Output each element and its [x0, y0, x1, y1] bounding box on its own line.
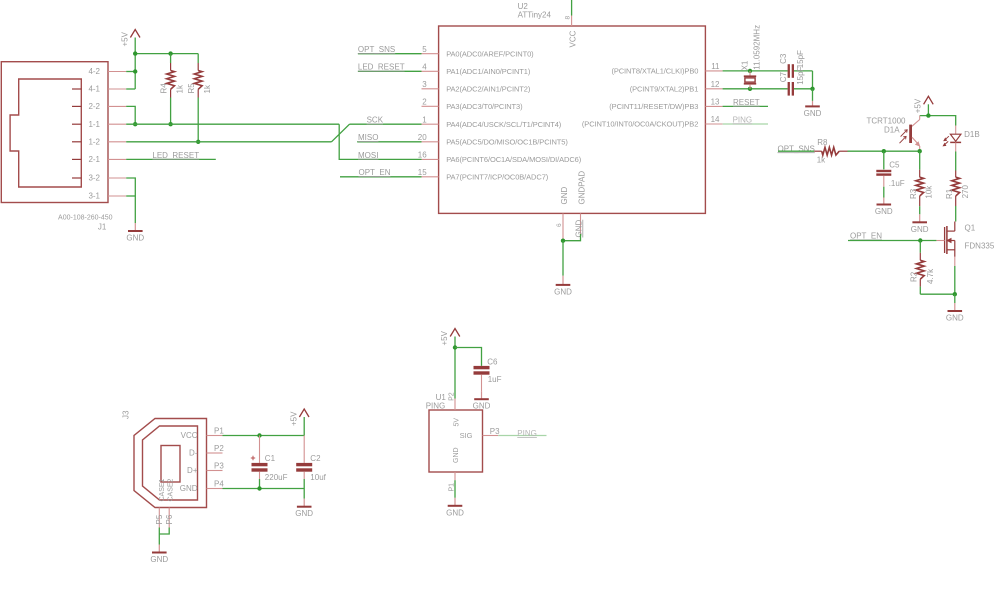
J1 pin stubs [108, 72, 126, 197]
crystal X1 [744, 71, 756, 89]
resistor R4 [167, 54, 175, 125]
U2 pin 4 PA1 [422, 62, 531, 76]
svg-text:(PCINT9/XTAL2)PB1: (PCINT9/XTAL2)PB1 [630, 85, 699, 94]
transistor Q1 FDN335 (N-MOSFET) [936, 222, 954, 267]
svg-text:OPT_SNS: OPT_SNS [358, 45, 395, 54]
svg-text:1k: 1k [203, 84, 212, 93]
net label SCK [367, 116, 384, 125]
svg-text:J1: J1 [98, 222, 107, 231]
svg-text:PA7(PCINT7/ICP/OC0B/ADC7): PA7(PCINT7/ICP/OC0B/ADC7) [446, 173, 549, 182]
svg-text:PA0(ADC0/AREF/PCINT0): PA0(ADC0/AREF/PCINT0) [446, 49, 534, 58]
svg-text:SCK: SCK [367, 116, 384, 125]
svg-text:6: 6 [556, 223, 563, 227]
wire XTAL1 net (pin 11) [723, 70, 788, 72]
net label MOSI [358, 151, 378, 160]
net label LED_RESET (J1) [152, 151, 199, 160]
ground GND (C2) [295, 499, 313, 519]
junction X1 top [748, 69, 752, 73]
svg-text:3: 3 [422, 80, 427, 89]
svg-text:2-2: 2-2 [88, 102, 100, 111]
wire net LED_RESET stub (IC) [358, 70, 422, 72]
svg-text:4: 4 [422, 62, 427, 71]
svg-text:GND: GND [946, 314, 964, 323]
U1 pin P3 SIG [460, 427, 501, 440]
svg-text:+5V: +5V [440, 330, 449, 345]
wire caps to ground [812, 89, 814, 101]
svg-text:Q1: Q1 [965, 223, 976, 232]
wire J1 3-2/3-1 to ground [126, 178, 135, 223]
svg-text:P4: P4 [214, 480, 224, 489]
svg-text:15pF: 15pF [796, 66, 805, 84]
wire C3 to C7 junction [812, 71, 814, 89]
svg-text:U1: U1 [436, 393, 447, 402]
U2 value ATTiny24 [518, 11, 552, 20]
J3 pin P2 D- [189, 444, 224, 457]
wire P1 to ground [454, 480, 456, 498]
J1 pin name labels [88, 67, 100, 201]
C1 value 220uF [265, 473, 288, 482]
junction 4-2 row [133, 69, 137, 73]
junction R2 top [918, 238, 922, 242]
D1A name [884, 126, 900, 135]
svg-text:20: 20 [418, 133, 427, 142]
svg-text:R2: R2 [910, 271, 919, 282]
net label OPT_EN (sensor) [850, 232, 882, 241]
U1 pin P2 5V [448, 392, 460, 426]
U2 pin 11 PB0 [611, 62, 722, 76]
svg-text:11: 11 [711, 62, 720, 71]
svg-text:+5V: +5V [289, 411, 298, 426]
resistor R2 [916, 241, 924, 295]
capacitor C1 (electrolytic) [251, 436, 268, 489]
U2 pin GNDPAD [577, 171, 586, 234]
J1 refdes [98, 222, 107, 231]
ground GND (crystal) [804, 101, 822, 118]
svg-text:P1: P1 [214, 427, 224, 436]
C2 name [310, 454, 321, 463]
svg-text:A00-108-260-450: A00-108-260-450 [58, 215, 113, 222]
U2 pin 5 PA0 [422, 45, 535, 59]
svg-text:4-1: 4-1 [88, 85, 100, 94]
net label RESET [733, 98, 760, 107]
svg-text:X1: X1 [741, 60, 750, 70]
capacitor C5 [876, 151, 891, 197]
svg-text:R5: R5 [187, 83, 196, 94]
svg-text:(PCINT10/INT0/OC0A/CKOUT)PB2: (PCINT10/INT0/OC0A/CKOUT)PB2 [582, 120, 698, 129]
C5 value .1uF [889, 179, 905, 188]
svg-text:D+: D+ [187, 466, 198, 475]
svg-text:D-: D- [189, 449, 198, 458]
svg-text:C5: C5 [889, 161, 900, 170]
J1 value A00-108-260-450 [58, 215, 113, 222]
svg-text:D1A: D1A [884, 126, 900, 135]
wire CASE pins to ground [159, 528, 169, 545]
R5 name [187, 83, 196, 94]
svg-text:5V: 5V [453, 418, 460, 427]
C2 value 10uf [310, 473, 326, 482]
ground GND (U2) [554, 276, 572, 297]
C5 name [889, 161, 900, 170]
net label MISO [358, 133, 378, 142]
svg-text:GND: GND [446, 508, 464, 517]
U2 pin 6 GND [556, 187, 569, 240]
svg-text:2: 2 [422, 97, 427, 106]
wire source down [954, 266, 956, 294]
wire diagonal to SCK row [332, 124, 350, 142]
svg-text:ATTiny24: ATTiny24 [518, 11, 552, 20]
wire to ground (J3 rail) [303, 489, 305, 499]
svg-text:8: 8 [565, 16, 572, 20]
resistor R3 [916, 151, 924, 214]
R2 name [910, 271, 919, 282]
supply +5V (U1) [440, 329, 460, 346]
net label OPT_EN [359, 168, 391, 177]
svg-text:C7: C7 [779, 72, 788, 83]
wire +5V vertical to pull-up rail [134, 38, 136, 90]
transistor D1A (TCRT1000 phototransistor) [900, 116, 920, 152]
capacitor C3 [788, 64, 813, 78]
ground GND (C6) [473, 391, 491, 411]
svg-text:VCC: VCC [568, 30, 577, 47]
connector J1 (RJ45 jack A00-108-260-450) [1, 62, 108, 203]
R1 name [945, 188, 954, 199]
U2 refdes [518, 2, 529, 11]
wire +5V rail to D1A and D1B [920, 116, 956, 126]
wire J1 4-1 to rail [126, 88, 135, 90]
U2 pin 2 PA3 [422, 97, 524, 111]
U2 pin 8 VCC [565, 16, 578, 48]
svg-text:SIG: SIG [460, 431, 473, 440]
svg-text:PA4(ADC4/USCK/SCL/T1/PCINT4): PA4(ADC4/USCK/SCL/T1/PCINT4) [446, 120, 562, 129]
U2 pin 13 PB3 [609, 98, 722, 112]
ground GND (U1) [446, 498, 464, 518]
svg-text:CASE2: CASE2 [168, 478, 175, 501]
net label PING (U1) [517, 429, 537, 438]
U1 pin P1 GND [448, 447, 460, 491]
connector J3 (USB) [134, 419, 207, 508]
junction caps to ground [810, 87, 814, 91]
svg-text:1: 1 [422, 115, 427, 124]
svg-text:GND: GND [554, 287, 572, 296]
svg-text:OPT_SNS: OPT_SNS [778, 144, 815, 153]
svg-text:11.0592MHz: 11.0592MHz [752, 25, 761, 70]
svg-text:LED_RESET: LED_RESET [358, 63, 405, 72]
svg-text:D1B: D1B [964, 130, 980, 139]
svg-text:PA1(ADC1/AIN0/PCINT1): PA1(ADC1/AIN0/PCINT1) [446, 67, 531, 76]
svg-text:P2: P2 [214, 444, 224, 453]
U2 pin 1 PA4 [422, 115, 562, 129]
wire OPT_SNS to R8 [778, 150, 814, 152]
J3 pin P3 D+ [187, 462, 224, 475]
svg-text:+5V: +5V [120, 31, 129, 46]
C3 value 15pF [796, 50, 805, 68]
wire net PING (U1) [498, 435, 546, 437]
svg-text:15: 15 [418, 168, 427, 177]
R8 value 1k [817, 155, 826, 164]
X1 name [741, 60, 750, 70]
junction C1 bottom [257, 486, 261, 490]
wire +5V to VCC rail [303, 417, 305, 436]
svg-text:2-1: 2-1 [88, 155, 100, 164]
C1 name [265, 454, 276, 463]
wire +5V to P2 [454, 337, 456, 399]
J3 pin P1 VCC [181, 427, 225, 440]
net label GND (GNDPAD) [574, 220, 583, 238]
TCRT1000 name [867, 117, 907, 126]
J3 pin CASE2 [165, 478, 175, 527]
junction X1 bottom [748, 87, 752, 91]
supply +5V (J3) [289, 409, 309, 426]
capacitor C6 [474, 366, 490, 391]
svg-text:10uf: 10uf [310, 473, 326, 482]
svg-text:GND: GND [150, 555, 168, 564]
junction C5 top [882, 149, 886, 153]
C6 value 1uF [488, 375, 502, 384]
svg-text:PA5(ADC5/DO/MISO/OC1B/PCINT5): PA5(ADC5/DO/MISO/OC1B/PCINT5) [446, 138, 568, 147]
R8 name [817, 138, 828, 147]
R4 value 1k [175, 84, 184, 93]
X1 value 11.0592MHz [752, 25, 761, 70]
wire J1 4-2 to rail [126, 71, 135, 73]
svg-text:C3: C3 [779, 53, 788, 64]
svg-text:PING: PING [517, 429, 537, 438]
svg-text:PA2(ADC2/AIN1/PCINT2): PA2(ADC2/AIN1/PCINT2) [446, 85, 531, 94]
wire GNDPAD to GND pin [563, 234, 581, 241]
wire pull-up rail horizontal [135, 53, 198, 55]
wire R8 to sensor node [848, 150, 920, 152]
svg-text:GND: GND [911, 225, 929, 234]
ground GND (Q1) [946, 303, 964, 323]
svg-text:PING: PING [733, 115, 753, 124]
svg-text:C1: C1 [265, 454, 276, 463]
junction source/R2 [953, 292, 957, 296]
capacitor C7 [788, 82, 813, 96]
svg-text:4.7k: 4.7k [926, 268, 935, 284]
wire net from J1 1-2 [126, 141, 331, 143]
wire net RESET (pin 13) [723, 105, 768, 107]
C3 name [779, 53, 788, 64]
svg-text:1-1: 1-1 [88, 120, 100, 129]
wire XTAL2 net (pin 12) [723, 88, 788, 90]
svg-text:P3: P3 [214, 462, 224, 471]
wire net SCK from J1 1-1 [126, 123, 339, 125]
U2 pin 12 PB1 [630, 80, 723, 94]
R4 name [160, 83, 169, 94]
svg-text:GND: GND [560, 187, 569, 205]
supply +5V (sensor) [914, 96, 934, 113]
svg-text:MOSI: MOSI [358, 151, 378, 160]
svg-text:MISO: MISO [358, 133, 378, 142]
junction C6 tap [453, 345, 457, 349]
svg-text:1k: 1k [817, 155, 826, 164]
svg-text:P6: P6 [165, 514, 174, 524]
capacitor C2 [296, 436, 312, 489]
svg-text:C2: C2 [310, 454, 321, 463]
svg-text:GND: GND [295, 509, 313, 518]
R2 value 4.7k [926, 268, 935, 284]
R1 value 270 [961, 185, 970, 199]
wire OPT_EN to gate [848, 240, 936, 242]
U1 refdes [436, 393, 447, 402]
wire vertical to MOSI row [339, 124, 421, 159]
svg-text:10k: 10k [925, 185, 934, 199]
wire net LED_RESET from J1 2-1 [126, 158, 216, 160]
svg-text:15pF: 15pF [796, 50, 805, 68]
svg-text:PA3(ADC3/T0/PCINT3): PA3(ADC3/T0/PCINT3) [446, 102, 523, 111]
wire VCC rail (P1) [223, 435, 305, 437]
ground GND (C5) [875, 198, 893, 217]
svg-text:OPT_EN: OPT_EN [359, 168, 391, 177]
svg-text:R3: R3 [909, 188, 918, 199]
C6 name [487, 358, 498, 367]
svg-text:P3: P3 [490, 427, 500, 436]
resistor R8 [814, 147, 847, 155]
svg-text:1-2: 1-2 [88, 137, 100, 146]
svg-text:PING: PING [426, 402, 446, 411]
LED D1B (TCRT1000 emitter) [943, 126, 961, 152]
svg-text:14: 14 [711, 115, 720, 124]
svg-text:RESET: RESET [733, 98, 760, 107]
wire to C6 [455, 348, 482, 366]
ground GND (J3) [150, 545, 168, 565]
svg-text:C6: C6 [487, 358, 498, 367]
svg-text:R1: R1 [945, 188, 954, 199]
svg-text:R4: R4 [160, 83, 169, 94]
svg-text:.1uF: .1uF [889, 179, 905, 188]
svg-text:GND: GND [453, 447, 460, 463]
net label OPT_SNS (sensor) [778, 144, 815, 153]
svg-text:CASE1: CASE1 [159, 478, 166, 501]
net label LED_RESET (IC) [358, 63, 405, 72]
wire GND rail (P4) [223, 488, 305, 490]
svg-text:GND: GND [126, 234, 144, 243]
svg-text:12: 12 [711, 80, 720, 89]
U2 pin 15 PA7 [418, 168, 549, 182]
C7 name [779, 72, 788, 83]
C7 value 15pF [796, 66, 805, 84]
wire net OPT_SNS stub [358, 53, 422, 55]
svg-text:(PCINT8/XTAL1/CLKI)PB0: (PCINT8/XTAL1/CLKI)PB0 [611, 67, 698, 76]
svg-text:1uF: 1uF [488, 375, 502, 384]
wire J1 2-2 down to SCK net [126, 106, 135, 124]
wire SCK into IC pin 1 [350, 123, 422, 125]
J3 pin P4 GND [180, 480, 225, 493]
wire R2 to source [920, 293, 955, 295]
svg-text:16: 16 [418, 151, 427, 160]
R3 value 10k [925, 185, 934, 199]
svg-text:FDN335: FDN335 [965, 242, 995, 251]
junction +5V sensor rail [926, 113, 930, 117]
svg-text:VCC: VCC [181, 431, 198, 440]
ground GND (J1) [126, 223, 144, 243]
svg-text:GND: GND [804, 109, 822, 118]
svg-text:R8: R8 [817, 138, 828, 147]
svg-text:PA6(PCINT6/OC1A/SDA/MOSI/DI/AD: PA6(PCINT6/OC1A/SDA/MOSI/DI/ADC6) [446, 155, 582, 164]
op-amp U2 ATtiny24 body [439, 26, 706, 213]
svg-text:1k: 1k [175, 84, 184, 93]
U2 pin 3 PA2 [422, 80, 531, 94]
U1 value PING [426, 402, 446, 411]
svg-text:J3: J3 [122, 410, 131, 419]
junction R4 top [168, 51, 172, 55]
junction GND pin [561, 239, 565, 243]
Q1 value FDN335 [965, 242, 995, 251]
ground GND (R3) [911, 214, 929, 234]
wire net OPT_EN stub [340, 176, 422, 178]
junction sensor node [918, 149, 922, 153]
net label OPT_SNS [358, 45, 395, 54]
svg-text:GND: GND [574, 220, 583, 238]
svg-text:P5: P5 [155, 514, 164, 524]
svg-text:5: 5 [422, 45, 427, 54]
junction R4 bottom [168, 122, 172, 126]
svg-text:+5V: +5V [914, 98, 923, 113]
junction +5V rail [133, 51, 137, 55]
svg-text:GND: GND [180, 484, 198, 493]
svg-text:GND: GND [875, 207, 893, 216]
R3 name [909, 188, 918, 199]
svg-text:(PCINT11/RESET/DW)PB3: (PCINT11/RESET/DW)PB3 [609, 102, 698, 111]
D1B name [964, 130, 980, 139]
wire net PING (pin 14) [723, 123, 768, 125]
Q1 name [965, 223, 976, 232]
svg-text:TCRT1000: TCRT1000 [867, 117, 907, 126]
wire net MISO stub [357, 141, 421, 143]
sensor module U1 PING body [429, 410, 483, 472]
resistor R1 [952, 152, 960, 222]
net label PING (IC) [733, 115, 753, 124]
wire VCC to top edge [571, 0, 573, 16]
J3 refdes [122, 410, 131, 419]
svg-text:U2: U2 [518, 2, 529, 11]
svg-text:4-2: 4-2 [88, 67, 100, 76]
junction 2-2/1-1 [133, 122, 137, 126]
junction R5 bottom [196, 140, 200, 144]
J3 pin CASE1 [155, 478, 166, 527]
svg-text:3-2: 3-2 [88, 174, 100, 183]
supply +5V (J1 pull-ups) [120, 30, 140, 47]
svg-text:OPT_EN: OPT_EN [850, 232, 882, 241]
svg-text:P2: P2 [448, 392, 455, 401]
U2 pin 14 PB2 [582, 115, 723, 129]
U2 pin 20 PA5 [418, 133, 569, 147]
resistor R5 [194, 54, 202, 142]
U2 pin 16 PA6 [418, 151, 582, 165]
svg-text:13: 13 [711, 98, 720, 107]
svg-text:3-1: 3-1 [88, 192, 100, 201]
svg-text:LED_RESET: LED_RESET [152, 151, 199, 160]
wire GND down [562, 241, 564, 276]
wire to ground (Q1) [954, 294, 956, 303]
svg-text:GNDPAD: GNDPAD [577, 171, 586, 205]
R5 value 1k [203, 84, 212, 93]
svg-text:220uF: 220uF [265, 473, 288, 482]
junction C1 top [257, 433, 261, 437]
svg-text:270: 270 [961, 185, 970, 199]
wire +5V down [927, 104, 929, 115]
